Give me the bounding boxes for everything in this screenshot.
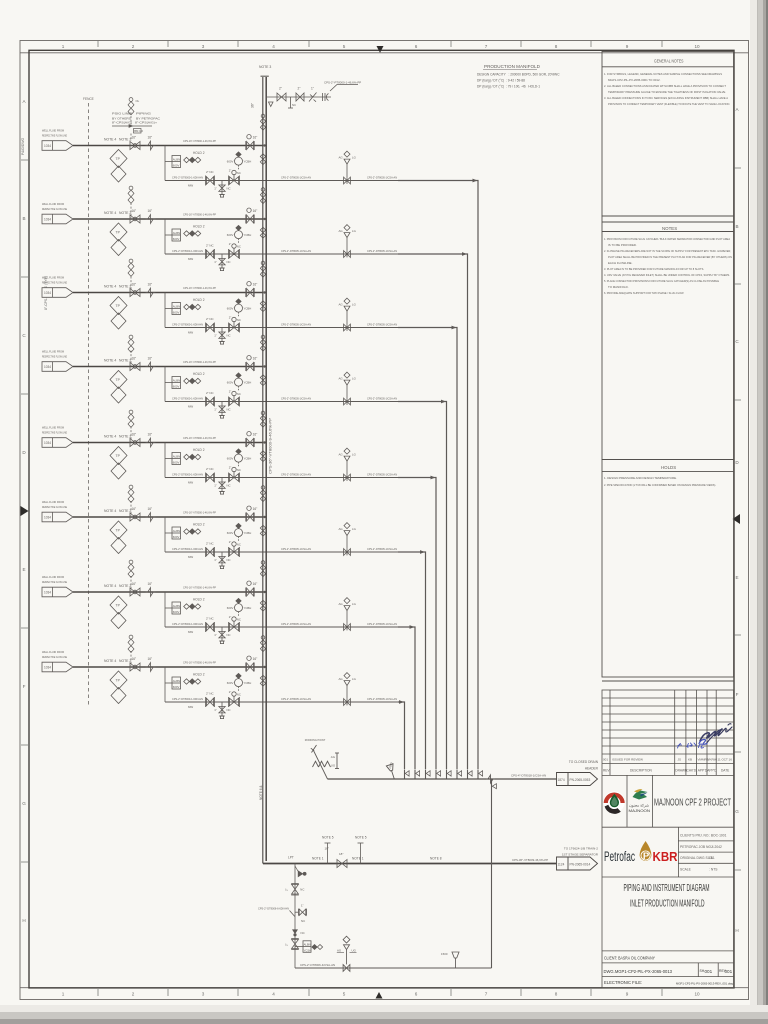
svg-text:10: 10 [694, 992, 700, 997]
svg-text:NOTE 3: NOTE 3 [259, 65, 271, 69]
svg-text:CPS-2"-DT8006-4/CSA-AN: CPS-2"-DT8006-4/CSA-AN [300, 963, 335, 967]
svg-text:1500: 1500 [441, 952, 448, 956]
svg-text:VKRMI: VKRMI [708, 758, 718, 762]
svg-text:PIPING: PIPING [136, 112, 152, 116]
svg-text:PETROFAC JOB NO.: PETROFAC JOB NO. [680, 845, 712, 849]
svg-text:18": 18" [325, 847, 329, 851]
svg-text:TO 1T6624-1/B TRAIN-2: TO 1T6624-1/B TRAIN-2 [564, 847, 598, 851]
svg-text:UG: UG [352, 949, 357, 953]
svg-text:شركة مجنون: شركة مجنون [629, 804, 649, 808]
svg-text:AG: AG [331, 755, 336, 759]
svg-text:2: 2 [132, 44, 135, 49]
svg-text:MAJNOON: MAJNOON [629, 809, 651, 813]
svg-text:1124: 1124 [558, 862, 565, 866]
svg-text:NOTE 1: NOTE 1 [352, 857, 364, 861]
svg-text:DP (barg) / DT (°C) : 9-42 /: DP (barg) / DT (°C) : 9-42 / 59-88 [477, 79, 525, 83]
svg-text:MGP1-CP2-PIL-PX-2065-0013-REV_: MGP1-CP2-PIL-PX-2065-0013-REV_001.dwg [676, 982, 733, 986]
svg-text:5: 5 [343, 44, 346, 49]
svg-text:1": 1" [301, 903, 304, 907]
svg-text:DP (barg) / DT (°C) : 79 / 10: DP (barg) / DT (°C) : 79 / 100, -46 HOLD… [477, 85, 540, 89]
svg-text:ELECTRONIC FILE:: ELECTRONIC FILE: [604, 980, 642, 985]
svg-text:4: 4 [272, 992, 275, 997]
svg-text:1ST STAGE SEPARATOR: 1ST STAGE SEPARATOR [562, 853, 599, 857]
svg-text:CLIENT'S PRJ. NO.: CLIENT'S PRJ. NO. [680, 834, 709, 838]
svg-text:9: 9 [626, 44, 629, 49]
svg-text:REV: REV [603, 769, 610, 773]
svg-text:P&ID/DWG: P&ID/DWG [21, 137, 25, 155]
svg-text:DATE: DATE [721, 769, 729, 773]
svg-text:NC: NC [301, 931, 305, 935]
svg-text:PSIG LINE: PSIG LINE [112, 112, 131, 116]
svg-text:7: 7 [485, 992, 488, 997]
svg-text:B: B [22, 216, 25, 221]
svg-text:DWG.MGP1-CP2-PIL-PX-2065-0013: DWG.MGP1-CP2-PIL-PX-2065-0013 [604, 969, 673, 975]
svg-text:G: G [735, 809, 739, 814]
svg-text:001: 001 [705, 969, 713, 974]
svg-text:4. UDV VALVE (AT PIG RECEIVER: 4. UDV VALVE (AT PIG RECEIVER INLET) SHA… [604, 273, 730, 277]
svg-text:4: 4 [272, 44, 275, 49]
svg-text:B: B [735, 224, 738, 229]
svg-text:FENCE: FENCE [83, 97, 94, 101]
svg-text:JS: JS [678, 758, 682, 762]
svg-text:PIPING AND INSTRUMENT DIAGRAM: PIPING AND INSTRUMENT DIAGRAM [624, 882, 710, 894]
svg-text:5: 5 [343, 992, 346, 997]
svg-text:C: C [735, 339, 739, 344]
svg-text:6: 6 [415, 992, 418, 997]
svg-text:NC: NC [292, 103, 296, 107]
svg-text:2": 2" [279, 87, 282, 91]
svg-text:8: 8 [555, 992, 558, 997]
svg-text:8"-CPS(A/G): 8"-CPS(A/G) [112, 121, 132, 125]
svg-text:1: 1 [62, 992, 65, 997]
svg-text:001: 001 [603, 758, 608, 762]
svg-text:11 OCT 16: 11 OCT 16 [718, 758, 733, 762]
svg-text:F: F [736, 692, 739, 697]
svg-text:6. PROVIDE ADEQUATE SUPPORT FO: 6. PROVIDE ADEQUATE SUPPORT FOR TWO PHAS… [604, 291, 684, 295]
svg-text:NC: NC [300, 887, 304, 891]
svg-text:: JI-2042: : JI-2042 [709, 845, 722, 849]
svg-text:2. ALL BLEED CONNECTIONS ASSOC: 2. ALL BLEED CONNECTIONS ASSOCIATED WITH… [604, 84, 726, 88]
svg-text:CPS-4"-DT8018-1/CSA-AN: CPS-4"-DT8018-1/CSA-AN [511, 774, 546, 778]
svg-text:5. PLACE CONNECTION PROVISIONS: 5. PLACE CONNECTION PROVISIONS FOR FUTUR… [604, 279, 719, 283]
svg-text:G: G [22, 801, 26, 806]
svg-text:BY OTHERS: BY OTHERS [112, 116, 131, 120]
svg-text:YCSH: YCSH [304, 948, 312, 952]
svg-text:BY PETROFAC: BY PETROFAC [136, 116, 160, 120]
svg-text:H: H [22, 918, 25, 923]
svg-text:HEADER: HEADER [585, 767, 599, 771]
svg-text:3: 3 [202, 992, 205, 997]
svg-text:H: H [735, 928, 738, 933]
svg-text:CPS-36"-VT8000-9-46,6%-PP: CPS-36"-VT8000-9-46,6%-PP [269, 418, 273, 474]
svg-text:2": 2" [285, 888, 289, 891]
svg-text:TO CLOSED DRAIN: TO CLOSED DRAIN [569, 760, 599, 764]
svg-text:D: D [735, 460, 739, 465]
svg-text:E: E [735, 575, 738, 580]
svg-text:1": 1" [311, 87, 314, 91]
svg-text:NOTE 6 &: NOTE 6 & [259, 785, 263, 800]
svg-text:D: D [22, 450, 26, 455]
svg-text:A: A [735, 107, 739, 112]
svg-text:36": 36" [251, 102, 255, 108]
svg-text:6: 6 [415, 44, 418, 49]
svg-text:TO MANIFOLD.: TO MANIFOLD. [608, 285, 629, 289]
svg-text:CPS-2"-DT8006-6-6DN-HN: CPS-2"-DT8006-6-6DN-HN [258, 906, 289, 910]
svg-text:2. FLOWLINE PIG-RECEIVERS ARE: 2. FLOWLINE PIG-RECEIVERS ARE NOT IN THE… [604, 249, 731, 253]
svg-text:BM 1.0: BM 1.0 [134, 129, 143, 133]
svg-text:LPT: LPT [288, 856, 294, 860]
svg-text:AG: AG [337, 949, 342, 953]
svg-text:1. DESIGN PRESSURE AND DESIGN: 1. DESIGN PRESSURE AND DESIGN TEMPERATUR… [604, 476, 677, 480]
svg-text:CPS-36"-VT8009-46,6%-PP: CPS-36"-VT8009-46,6%-PP [512, 858, 548, 862]
svg-text:9: 9 [626, 992, 629, 997]
svg-text:10: 10 [694, 44, 700, 49]
svg-text:E: E [22, 567, 25, 572]
svg-text:1874: 1874 [558, 778, 565, 782]
svg-text:: A1: : A1 [709, 856, 715, 860]
svg-text:RODDING POINT: RODDING POINT [305, 738, 326, 742]
svg-text:PRODUCTION MANIFOLD: PRODUCTION MANIFOLD [484, 64, 541, 69]
svg-text:DESIGN CAPACITY : 200000 BOP: DESIGN CAPACITY : 200000 BOPD, 500 GOR, … [477, 73, 560, 77]
svg-text:MGP1-CP2-PIL-PX-2065-0001 TO 0: MGP1-CP2-PIL-PX-2065-0001 TO 0012. [608, 78, 661, 82]
svg-text:NOTES: NOTES [662, 226, 677, 231]
svg-text:DESCRIPTION: DESCRIPTION [630, 769, 652, 773]
svg-text:CLIENT: BASRA OIL COMPANY: CLIENT: BASRA OIL COMPANY [604, 956, 655, 961]
svg-text:PLOT AREA SHALL BE PROVIDED IN: PLOT AREA SHALL BE PROVIDED IN THE PRESE… [608, 255, 732, 259]
svg-text:INLET PRODUCTION MANIFOLD: INLET PRODUCTION MANIFOLD [630, 898, 705, 910]
svg-text:: BOC-1001: : BOC-1001 [709, 834, 727, 838]
svg-text:PROVISION TO CONNECT TEMPORARY: PROVISION TO CONNECT TEMPORARY VENT (FLE… [608, 102, 730, 106]
svg-text:MAJNOON CPF 2 PROJECT: MAJNOON CPF 2 PROJECT [654, 798, 731, 809]
svg-text:TEMPORARY PRESSURE GAUGE TO EN: TEMPORARY PRESSURE GAUGE TO ENSURE THE T… [608, 90, 726, 94]
svg-text:3. ALL BLEED CONNECTIONS IN TO: 3. ALL BLEED CONNECTIONS IN TOXIC SERVIC… [604, 96, 728, 100]
svg-text:HOLDS: HOLDS [661, 465, 676, 470]
svg-text:NOTE 8: NOTE 8 [430, 857, 442, 861]
svg-text:NOTE 5: NOTE 5 [355, 836, 367, 840]
svg-text:1: 1 [62, 44, 65, 49]
svg-text:KB: KB [688, 758, 692, 762]
svg-text:PN-2065-0053: PN-2065-0053 [570, 778, 591, 782]
svg-text:18": 18" [339, 852, 343, 856]
svg-text:3. PLOT AREA IS TO BE PROVIDED: 3. PLOT AREA IS TO BE PROVIDED FOR FUTUR… [604, 267, 704, 271]
svg-text:7: 7 [485, 44, 488, 49]
svg-text:APP'D: APP'D [707, 769, 717, 773]
svg-text:SCALE: SCALE [680, 867, 692, 871]
svg-text:Petrofac: Petrofac [604, 849, 635, 864]
svg-text:ALBN: ALBN [304, 942, 311, 946]
svg-text:2": 2" [298, 87, 301, 91]
svg-text:2: 2 [132, 992, 135, 997]
svg-text:UG: UG [331, 764, 336, 768]
svg-text:CPS-2"-PT8000-1-46,6%-PP: CPS-2"-PT8000-1-46,6%-PP [324, 81, 361, 85]
svg-text:PN-2065-0014: PN-2065-0014 [570, 862, 591, 866]
svg-text:ISSUED FOR REVIEW: ISSUED FOR REVIEW [612, 758, 643, 762]
svg-text:1. PROVISION FOR FUTURE SLUG C: 1. PROVISION FOR FUTURE SLUG CATCHER / B… [604, 237, 730, 241]
svg-text:NOTE 5: NOTE 5 [322, 836, 334, 840]
svg-text:APP'D: APP'D [698, 769, 708, 773]
svg-text:IS TO BE PROVIDED.: IS TO BE PROVIDED. [608, 243, 637, 247]
svg-text:C: C [22, 333, 26, 338]
svg-text:NOTE 1: NOTE 1 [312, 857, 324, 861]
svg-text:1. FOR SYMBOLS, LEGEND, GENERA: 1. FOR SYMBOLS, LEGEND, GENERAL NOTES AN… [604, 72, 722, 76]
svg-text:3: 3 [202, 44, 205, 49]
svg-text:8: 8 [555, 44, 558, 49]
svg-text:A: A [22, 99, 26, 104]
svg-text:P: P [643, 851, 650, 862]
svg-text:: NTS: : NTS [709, 867, 718, 871]
svg-text:8"-CPS(A/G)+: 8"-CPS(A/G)+ [135, 121, 157, 125]
svg-text:EACH FLOWLINE.: EACH FLOWLINE. [608, 261, 633, 265]
svg-text:NC: NC [301, 919, 305, 923]
svg-text:OL: OL [136, 99, 140, 103]
svg-text:2": 2" [285, 943, 289, 946]
svg-text:GENERAL NOTES: GENERAL NOTES [654, 59, 684, 64]
svg-text:F: F [23, 684, 26, 689]
svg-text:2. PIPE SPECIFICATION (L'TC8 W: 2. PIPE SPECIFICATION (L'TC8 WILL BE CON… [604, 483, 716, 487]
svg-text:001: 001 [725, 969, 733, 974]
svg-text:CHK'D: CHK'D [687, 769, 697, 773]
svg-text:KBR: KBR [653, 849, 679, 864]
